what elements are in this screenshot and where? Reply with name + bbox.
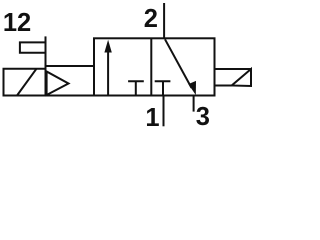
port 2 line: [163, 3, 165, 38]
pilot triangle: [47, 72, 69, 96]
svg-text:2: 2: [144, 5, 158, 33]
return spring (air spring triangle): [215, 69, 252, 86]
port 1 line: [163, 96, 165, 127]
solenoid coil box: [4, 69, 46, 96]
valve divider: [150, 38, 152, 95]
wire bottom rail: [3, 95, 215, 97]
solenoid slash: [17, 69, 37, 96]
blocked port T (left square): [128, 81, 144, 95]
port 3 line: [193, 96, 195, 112]
flow arrow (left square, 1 to 2): [107, 50, 109, 96]
pilot connector wire: [46, 65, 94, 67]
blocked port T (right square): [155, 81, 171, 95]
valve body: [94, 38, 215, 95]
svg-text:12: 12: [3, 9, 31, 37]
svg-text:1: 1: [145, 104, 159, 132]
pilot vertical line (port 12 stub / box right edge): [45, 36, 47, 95]
svg-text:3: 3: [196, 103, 210, 131]
flow path 2 to 3 diagonal with arrowhead: [165, 39, 192, 88]
pilot valve rectangle: [20, 42, 46, 52]
